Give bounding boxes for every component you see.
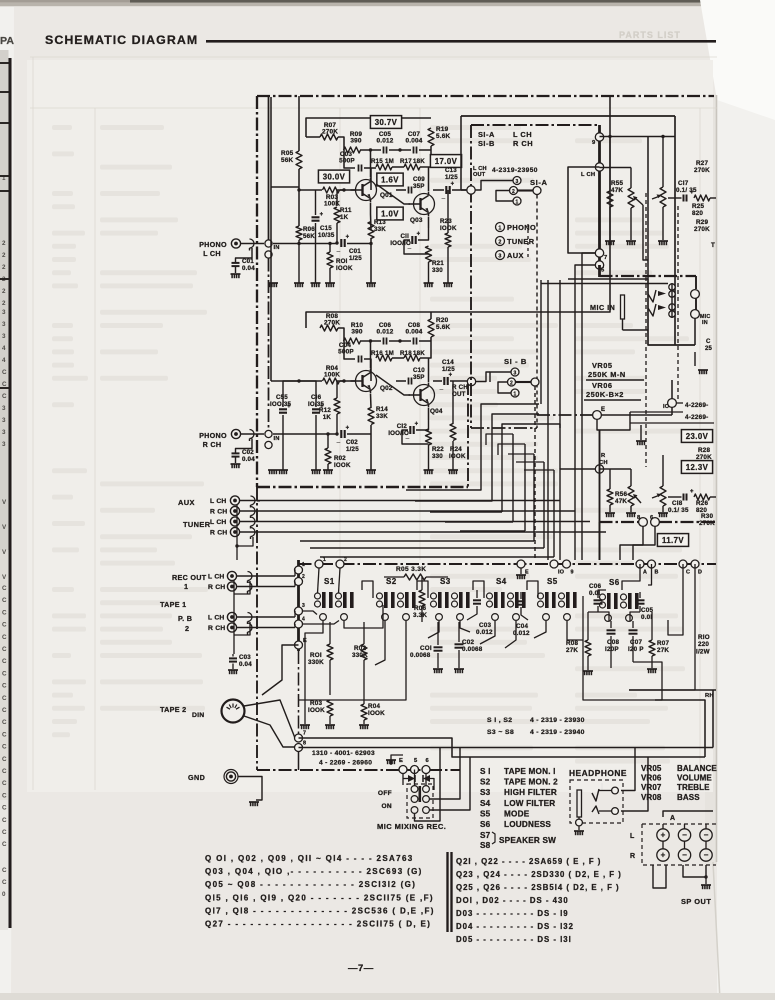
svg-text:IO: IO xyxy=(558,570,564,576)
svg-text:SPEAKER SW: SPEAKER SW xyxy=(499,836,556,845)
svg-text:R20: R20 xyxy=(436,317,449,324)
ground R02 xyxy=(323,469,333,471)
svg-text:R07: R07 xyxy=(657,640,669,647)
svg-text:TAPE MON. I: TAPE MON. I xyxy=(504,767,556,776)
wire RCH left loop xyxy=(560,469,596,560)
svg-text:Q04: Q04 xyxy=(430,408,443,415)
resistor R10 xyxy=(344,338,361,344)
svg-text:R27: R27 xyxy=(696,160,708,167)
wire R19 down xyxy=(430,146,432,160)
mic plug contact V2 xyxy=(648,304,656,316)
capacitor C02 0.0068 xyxy=(455,643,464,645)
wire S1-B common down xyxy=(534,386,536,560)
svg-text:PHONO: PHONO xyxy=(199,431,227,440)
svg-text:2: 2 xyxy=(344,557,347,563)
svg-text:4 - 2319 - 23940: 4 - 2319 - 23940 xyxy=(530,729,585,736)
svg-text:330: 330 xyxy=(432,453,443,460)
mic connector tips xyxy=(658,291,666,296)
svg-text:SI-A: SI-A xyxy=(530,178,548,187)
svg-text:2: 2 xyxy=(498,240,501,246)
svg-text:1: 1 xyxy=(184,582,188,591)
wire speaker gnd xyxy=(705,877,707,884)
wire node8 long right xyxy=(299,747,461,749)
headphone contact V xyxy=(592,789,599,801)
resistor R22 xyxy=(426,429,432,445)
svg-text:C: C xyxy=(2,879,7,886)
svg-text:OUT: OUT xyxy=(452,391,466,398)
svg-text:0.012: 0.012 xyxy=(377,138,394,145)
svg-text:I20 P: I20 P xyxy=(628,646,644,653)
wire left frame bottom xyxy=(256,487,258,770)
resistor R04 100K xyxy=(361,704,367,720)
capacitor C03 xyxy=(358,165,360,172)
svg-text:TUNER: TUNER xyxy=(183,520,211,529)
svg-text:ROI: ROI xyxy=(336,258,348,265)
ground R24 xyxy=(448,469,458,471)
wire C01 0.0068 net xyxy=(437,622,439,645)
ground R06 xyxy=(294,282,304,284)
svg-text:A: A xyxy=(643,570,647,576)
mic jack bar xyxy=(621,295,625,319)
wire C01 gnd xyxy=(235,267,237,274)
wire C14 left xyxy=(433,380,442,382)
svg-text:0.004: 0.004 xyxy=(406,329,423,336)
svg-text:+: + xyxy=(415,422,419,428)
svg-text:Q03: Q03 xyxy=(410,217,423,224)
svg-text:LOW FILTER: LOW FILTER xyxy=(504,799,555,808)
node bus C xyxy=(679,560,687,568)
svg-text:VR06: VR06 xyxy=(592,381,613,390)
svg-text:D05 - - - - - - - - - DS - I3I: D05 - - - - - - - - - DS - I3I xyxy=(456,935,572,944)
svg-text:+: + xyxy=(661,831,666,840)
svg-text:+: + xyxy=(451,182,455,188)
svg-text:1.6V: 1.6V xyxy=(381,175,399,184)
wire bus to bottom xyxy=(298,651,300,734)
wire selector box top xyxy=(471,124,599,126)
svg-text:18K: 18K xyxy=(413,158,425,165)
wire VR05b gnd xyxy=(630,506,632,512)
wire R05 ends xyxy=(384,576,404,578)
wire R55 top xyxy=(609,137,611,192)
resistor R09 xyxy=(344,147,361,153)
ground C55 xyxy=(278,469,288,471)
svg-text:+: + xyxy=(320,212,324,218)
wire fan 6 xyxy=(524,444,526,531)
wire contact1 wiring xyxy=(496,199,513,201)
svg-text:Q27 - - - - - - - - - - - - -: Q27 - - - - - - - - - - - - - - - - - 2S… xyxy=(205,920,431,929)
wire C17 left xyxy=(668,197,682,199)
node bus B xyxy=(648,560,656,568)
wire top supply rail R xyxy=(306,96,610,328)
left margin tick marks xyxy=(0,62,11,64)
svg-text:ROI: ROI xyxy=(310,652,322,659)
wire TUNER R line xyxy=(239,531,606,533)
node phono R gnd xyxy=(265,441,272,448)
wire node6 down xyxy=(633,526,655,560)
wire C06-C08 xyxy=(389,340,411,342)
resistor R17 18K xyxy=(404,164,420,170)
ground speaker xyxy=(701,884,711,886)
wire R12 down xyxy=(336,414,338,434)
svg-text:6: 6 xyxy=(650,515,654,521)
ground R01 xyxy=(325,282,335,284)
jack rec row 2 xyxy=(227,582,236,591)
svg-text:R CH: R CH xyxy=(208,584,225,591)
node 5 xyxy=(595,261,603,269)
svg-text:R23: R23 xyxy=(440,218,452,225)
wire diodes net xyxy=(402,774,404,786)
resistor R18 18K xyxy=(404,355,420,361)
title rule xyxy=(206,40,716,43)
svg-text:10/35: 10/35 xyxy=(318,232,335,239)
wire AUX L line xyxy=(239,500,560,502)
ground input R xyxy=(268,469,278,471)
node phono R in xyxy=(265,430,272,437)
svg-text:56K: 56K xyxy=(303,233,315,240)
resistor R26 xyxy=(694,494,710,500)
svg-text:+: + xyxy=(661,851,666,860)
wire input gnd drop xyxy=(237,537,253,546)
resistor R03 xyxy=(323,187,340,193)
wire fan 5 xyxy=(512,434,514,522)
svg-text:C55: C55 xyxy=(276,394,288,401)
wire R CH OUT to S1-B xyxy=(476,372,491,382)
svg-text:R24: R24 xyxy=(450,446,462,453)
svg-text:MIC IN: MIC IN xyxy=(590,303,615,312)
svg-text:R22: R22 xyxy=(432,446,444,453)
svg-text:C: C xyxy=(2,622,7,629)
separator double bar xyxy=(446,852,448,932)
svg-text:100K: 100K xyxy=(324,372,340,379)
resistor R04 xyxy=(323,378,340,384)
wire Q01 emitter down xyxy=(370,203,372,214)
wire node8 down xyxy=(620,526,643,560)
svg-text:HEADPHONE: HEADPHONE xyxy=(569,768,627,778)
capacitor C04 switch xyxy=(517,600,525,602)
svg-text:2: 2 xyxy=(2,264,6,271)
svg-text:1M: 1M xyxy=(385,158,394,165)
svg-text:33K: 33K xyxy=(376,413,388,420)
shield arc rec row 4 xyxy=(248,623,253,632)
wire C07 to R19 xyxy=(419,149,431,151)
mic sw contacts r2 xyxy=(411,796,418,803)
mic node small 3 xyxy=(669,304,675,310)
wire Q03 collector up xyxy=(428,167,430,191)
wire R02 span xyxy=(363,622,365,644)
svg-text:R55: R55 xyxy=(611,180,623,187)
svg-text:27K: 27K xyxy=(657,647,669,654)
voltage label 23.0V xyxy=(681,430,712,443)
node bus 9 xyxy=(563,560,571,568)
svg-text:+: + xyxy=(417,232,421,238)
svg-text:S I , S2: S I , S2 xyxy=(487,717,513,724)
wire R03 rail xyxy=(299,189,322,191)
jack input row 2 xyxy=(230,506,239,515)
ground C01 0.0068 xyxy=(433,668,443,670)
wire S6 bottom loop xyxy=(588,612,609,621)
svg-text:COI: COI xyxy=(420,645,432,652)
svg-text:11.7V: 11.7V xyxy=(662,536,684,545)
svg-text:C: C xyxy=(2,585,7,592)
svg-text:OFF: OFF xyxy=(378,790,392,797)
ground left pair xyxy=(268,282,278,284)
svg-text:SP OUT: SP OUT xyxy=(681,897,711,906)
svg-text:MIC MIXING REC.: MIC MIXING REC. xyxy=(377,822,446,831)
svg-text:CII: CII xyxy=(400,233,409,240)
wire rec rows to bus xyxy=(236,575,295,577)
svg-text:IOO/IO: IOO/IO xyxy=(390,240,411,247)
wire C18 left xyxy=(668,496,682,498)
svg-text:C15: C15 xyxy=(320,225,332,232)
svg-text:R14: R14 xyxy=(376,406,388,413)
electrolytic C02 xyxy=(340,430,342,438)
svg-text:CI2: CI2 xyxy=(397,423,408,430)
ground R13 xyxy=(366,282,376,284)
capacitor C07 xyxy=(413,147,415,154)
wire C10 left xyxy=(396,380,406,382)
jack rec row 3 xyxy=(227,612,236,621)
svg-text:4 - 2269 - 26960: 4 - 2269 - 26960 xyxy=(319,760,372,767)
electrolytic C15 xyxy=(312,216,320,218)
wire R03 to base xyxy=(340,189,356,191)
resistor R13 xyxy=(368,222,374,239)
wire C08 to R20 xyxy=(419,340,431,342)
capacitor C06 0.01 xyxy=(594,599,603,601)
wire R02 net xyxy=(327,434,329,448)
mic node small 1 xyxy=(669,284,675,290)
node phono L in xyxy=(265,240,272,247)
svg-text:9: 9 xyxy=(571,570,574,576)
wire R21 gnd xyxy=(428,262,430,283)
ground C02 input xyxy=(231,463,241,465)
svg-text:C03: C03 xyxy=(479,622,491,629)
terminal L − xyxy=(700,829,712,841)
node bus D xyxy=(691,560,699,568)
svg-text:P. B: P. B xyxy=(178,614,192,623)
svg-text:2: 2 xyxy=(2,252,6,259)
ground VR06b xyxy=(658,512,668,514)
resistor R05 3.3K xyxy=(404,574,426,580)
wire mic sw right out1 xyxy=(430,748,461,800)
terminal R + xyxy=(657,849,669,861)
svg-text:R06: R06 xyxy=(414,605,426,612)
ground VR05b xyxy=(626,512,636,514)
electrolytic C11 xyxy=(411,236,413,244)
wire LCH left loop xyxy=(568,167,600,253)
mic node small 2 xyxy=(669,291,675,297)
capacitor C10 xyxy=(408,378,410,385)
wire fan 7 xyxy=(533,454,535,541)
electrolytic C18 xyxy=(683,494,685,501)
wire Q02-Q04 link xyxy=(376,375,410,395)
node bus 1 xyxy=(315,560,323,568)
wire C05 to C07 xyxy=(389,149,411,151)
node bus E xyxy=(517,560,525,568)
svg-text:1/25: 1/25 xyxy=(349,255,362,262)
svg-text:BASS: BASS xyxy=(677,793,700,802)
wire S2 bottoms xyxy=(375,621,385,665)
wire C02 input gnd xyxy=(235,457,237,463)
svg-text:R05 3.3K: R05 3.3K xyxy=(396,566,426,573)
voltage label 1.0V xyxy=(377,207,403,220)
wire L rail horiz xyxy=(271,186,299,188)
jack phono R xyxy=(231,429,240,438)
wire speaker R out xyxy=(683,865,706,877)
selector S1-A common xyxy=(533,187,541,195)
svg-text:0.0068: 0.0068 xyxy=(462,646,483,653)
resistor R03 100K xyxy=(327,700,333,716)
wire VR05 gnd xyxy=(630,208,632,240)
resistor R07 xyxy=(320,134,338,140)
voltage label 30.0V xyxy=(318,170,349,183)
svg-text:TAPE 2: TAPE 2 xyxy=(160,705,186,714)
svg-text:L CH: L CH xyxy=(208,615,225,622)
svg-text:C: C xyxy=(2,867,7,874)
ground bus E xyxy=(516,574,526,576)
wire VR06b gnd xyxy=(662,506,664,512)
svg-text:R19: R19 xyxy=(436,126,449,133)
svg-text:2: 2 xyxy=(302,574,305,580)
resistor R16 1M xyxy=(376,355,392,361)
svg-text:1/25: 1/25 xyxy=(442,366,455,373)
wire VR06 underline xyxy=(584,399,641,401)
node 7 bus xyxy=(295,734,303,742)
wire TUNER L line xyxy=(239,521,590,523)
ground C16 xyxy=(311,469,321,471)
svg-text:C: C xyxy=(686,570,690,576)
selector S1-A contact 3 xyxy=(513,177,521,185)
transistor Q01 xyxy=(356,180,377,201)
potentiometer VR06 element xyxy=(660,187,666,207)
ground S1 area xyxy=(300,724,310,726)
capacitor C03 switch xyxy=(473,599,481,601)
voltage label 30.7V xyxy=(370,116,401,129)
svg-text:_: _ xyxy=(336,247,341,253)
svg-text:R05: R05 xyxy=(281,150,294,157)
svg-text:2: 2 xyxy=(2,240,6,247)
svg-text:5: 5 xyxy=(601,268,605,274)
svg-text:+: + xyxy=(690,489,694,495)
wire R block rail xyxy=(271,380,322,382)
wire R05 down xyxy=(298,169,300,226)
wire mic bundle xyxy=(671,283,673,318)
svg-text:IOO/35: IOO/35 xyxy=(270,401,292,408)
wire E-10 link xyxy=(601,414,672,416)
wire R17 right xyxy=(420,160,431,167)
wire long right drop 1 xyxy=(712,690,714,748)
wire R20 down xyxy=(430,337,432,351)
svg-text:QI5 , QI6 , QI9 , Q20 - - -: QI5 , QI6 , QI9 , Q20 - - - - - - - 2SCI… xyxy=(205,893,434,902)
node bus A xyxy=(636,560,644,568)
svg-text:C: C xyxy=(2,658,7,665)
svg-text:R02: R02 xyxy=(334,455,346,462)
svg-text:C: C xyxy=(2,719,7,726)
wire S1-B wiring 1 xyxy=(498,390,511,393)
wire wiper bus down xyxy=(643,205,648,260)
wire R56 top xyxy=(609,469,611,489)
svg-text:2: 2 xyxy=(2,288,6,295)
svg-text:_: _ xyxy=(336,438,341,444)
wire node8/6 bus xyxy=(600,521,640,523)
wire R04 to base xyxy=(340,380,356,382)
svg-text:SI - B: SI - B xyxy=(504,357,527,366)
wire fan 9 xyxy=(553,470,555,557)
svg-text:IN: IN xyxy=(274,436,280,442)
svg-text:VR08: VR08 xyxy=(641,793,662,802)
resistor R24 xyxy=(450,424,456,441)
svg-text:L CH: L CH xyxy=(203,249,221,258)
svg-text:3: 3 xyxy=(302,603,305,609)
wire bundle verticals mid xyxy=(547,280,549,560)
svg-text:S6: S6 xyxy=(609,578,620,587)
terminal L + xyxy=(657,829,669,841)
wire R01 span xyxy=(329,622,331,644)
wire input bus vertical xyxy=(268,96,270,240)
wire Q01 emitter to R13 xyxy=(370,214,373,230)
svg-text:R18: R18 xyxy=(400,350,412,357)
svg-text:IO: IO xyxy=(663,404,670,410)
svg-text:4-2319-23950: 4-2319-23950 xyxy=(492,167,538,174)
wire R15-R17 xyxy=(392,166,404,168)
electrolytic C12 xyxy=(409,426,411,434)
svg-text:D04 - - - - - - - - - DS - I32: D04 - - - - - - - - - DS - I32 xyxy=(456,922,574,931)
svg-text:AUX: AUX xyxy=(507,251,524,260)
svg-text:1K: 1K xyxy=(340,214,349,221)
svg-text:4: 4 xyxy=(2,357,6,364)
svg-text:R26: R26 xyxy=(696,500,708,507)
svg-text:1.0V: 1.0V xyxy=(381,209,399,218)
capacitor C04 xyxy=(358,356,360,363)
svg-text:250K M-N: 250K M-N xyxy=(588,370,626,379)
svg-text:C02: C02 xyxy=(462,639,474,646)
svg-text:C: C xyxy=(2,780,7,787)
svg-text:_: _ xyxy=(439,385,444,391)
svg-text:270K: 270K xyxy=(322,129,338,136)
resistor R25 xyxy=(694,195,710,201)
svg-text:C09: C09 xyxy=(413,176,425,183)
wire C55 gnd xyxy=(282,415,284,470)
svg-text:CI7: CI7 xyxy=(678,180,689,187)
svg-text:27K: 27K xyxy=(566,647,578,654)
svg-text:C: C xyxy=(2,817,7,824)
svg-text:330: 330 xyxy=(432,267,443,274)
wire VR05 wiper xyxy=(634,197,643,205)
svg-text:I/2W: I/2W xyxy=(696,649,710,656)
svg-text:−: − xyxy=(704,831,709,840)
svg-text:PHONO: PHONO xyxy=(199,240,227,249)
svg-text:+: + xyxy=(346,426,350,432)
shield arc row 2 xyxy=(251,507,256,516)
wire right lower frame xyxy=(568,278,648,280)
svg-text:PA: PA xyxy=(0,35,14,47)
svg-text:2: 2 xyxy=(2,300,6,307)
wire R13 to gnd xyxy=(370,238,372,283)
wire node7 long right xyxy=(299,738,471,757)
svg-text:56K: 56K xyxy=(281,157,294,164)
wire Q02 collector xyxy=(370,341,372,368)
mic sw contacts r1 xyxy=(411,786,418,793)
ground mic mixing E xyxy=(386,759,396,761)
svg-text:GND: GND xyxy=(188,773,205,782)
wire R01 stub xyxy=(329,244,331,253)
wire S1-B wiring 3 xyxy=(490,372,511,382)
wire C06 switch net xyxy=(598,590,606,598)
svg-text:IOOK: IOOK xyxy=(368,710,385,717)
wire AUX R line xyxy=(239,510,575,512)
svg-text:1: 1 xyxy=(498,226,501,232)
wire headphone contacts xyxy=(599,790,612,792)
wire C09 left xyxy=(396,189,406,191)
